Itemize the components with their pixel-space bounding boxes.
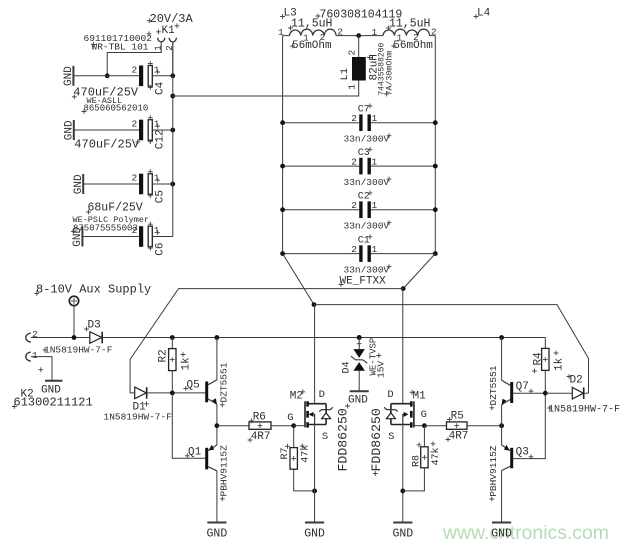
svg-text:GND: GND <box>41 385 61 397</box>
wire <box>152 75 173 77</box>
wire <box>358 371 360 391</box>
wire rail <box>172 42 174 237</box>
junction <box>291 423 296 428</box>
transistor Q7 <box>488 365 533 410</box>
diode D2 <box>567 374 584 399</box>
resistor R2 <box>158 349 193 371</box>
wire L1 pin2 <box>358 36 360 57</box>
svg-text:1: 1 <box>153 45 163 50</box>
svg-text:Q5: Q5 <box>187 379 200 391</box>
junction <box>170 182 175 187</box>
wire Q7 base <box>513 392 545 394</box>
svg-text:15V: 15V <box>375 361 386 378</box>
svg-text:4R7: 4R7 <box>449 430 469 442</box>
svg-text:DZT5551: DZT5551 <box>219 362 230 402</box>
junction <box>280 207 285 212</box>
junction <box>357 335 362 340</box>
wire Q1 emitter <box>216 426 218 445</box>
wire Q3 base <box>513 393 545 458</box>
svg-text:2: 2 <box>347 50 358 56</box>
inductor L1 <box>339 42 395 96</box>
svg-text:1: 1 <box>154 119 160 130</box>
svg-text:1: 1 <box>372 200 378 211</box>
svg-text:33n/300V: 33n/300V <box>344 134 390 145</box>
wire <box>171 371 173 393</box>
wire <box>73 75 139 77</box>
svg-text:1: 1 <box>371 27 377 38</box>
wire main rail <box>102 338 545 349</box>
wire <box>358 338 360 350</box>
ground <box>64 120 76 140</box>
resistor R6 <box>248 412 271 443</box>
wire <box>283 253 360 255</box>
capacitor C4 <box>72 61 167 99</box>
svg-text:68uF/25V: 68uF/25V <box>88 202 143 215</box>
ground <box>73 174 85 194</box>
svg-text:Q3: Q3 <box>516 447 529 459</box>
svg-text:GND: GND <box>304 527 325 540</box>
tvs diode D4 <box>341 338 386 378</box>
svg-text:GND: GND <box>392 527 413 540</box>
wire M2 source <box>314 425 316 523</box>
svg-text:2: 2 <box>351 200 357 211</box>
wire <box>371 253 435 255</box>
capacitor C5 <box>86 169 166 214</box>
wire diagonal <box>283 254 314 305</box>
svg-text:FDD86250: FDD86250 <box>336 408 351 471</box>
svg-text:2: 2 <box>351 244 357 255</box>
svg-text:1: 1 <box>32 350 38 361</box>
svg-text:1N5819HW-7-F: 1N5819HW-7-F <box>104 412 173 423</box>
inductor L3 <box>278 8 343 53</box>
wire <box>271 425 294 427</box>
wire <box>423 426 425 447</box>
svg-text:C5: C5 <box>155 190 167 203</box>
svg-text:1: 1 <box>347 84 358 90</box>
svg-text:1: 1 <box>372 157 378 168</box>
wire <box>424 425 446 427</box>
svg-text:1N5819HW-7-F: 1N5819HW-7-F <box>44 345 113 356</box>
power label 8-10V Aux Supply <box>34 283 151 297</box>
svg-text:33n/300V: 33n/300V <box>344 221 390 232</box>
resistor R8 <box>411 441 442 467</box>
wire <box>147 392 206 394</box>
svg-text:K1: K1 <box>162 25 176 37</box>
wire <box>152 236 173 238</box>
svg-text:M2: M2 <box>290 391 303 403</box>
svg-text:33n/300V: 33n/300V <box>344 177 390 188</box>
junction <box>357 335 362 340</box>
svg-text:C12: C12 <box>155 129 167 149</box>
svg-text:D2: D2 <box>570 375 583 387</box>
ground <box>72 226 84 246</box>
junction <box>401 286 406 291</box>
wire <box>283 35 290 37</box>
svg-text:D4: D4 <box>341 361 352 373</box>
wire <box>283 165 360 167</box>
wire <box>217 425 249 427</box>
wire Q1 collector <box>216 471 218 523</box>
svg-text:4R7: 4R7 <box>251 431 271 443</box>
svg-text:1: 1 <box>154 225 160 236</box>
power label 20V/3A <box>147 12 194 26</box>
svg-text:R8: R8 <box>411 455 422 467</box>
wire <box>82 236 139 238</box>
wire <box>371 122 435 124</box>
wire Q7 emitter <box>501 405 503 426</box>
svg-text:2: 2 <box>132 64 138 75</box>
svg-text:PBHV9115Z: PBHV9115Z <box>488 445 499 497</box>
wire Q3 emitter <box>501 426 503 445</box>
label 865060562010 <box>82 104 149 114</box>
wire M1 drain <box>402 289 404 404</box>
junction <box>105 73 110 78</box>
svg-text:1k: 1k <box>180 357 192 371</box>
wire <box>371 209 435 211</box>
svg-text:WE_FTXX: WE_FTXX <box>340 276 387 288</box>
wire to L1 <box>173 81 359 97</box>
junction <box>280 251 285 256</box>
junction <box>543 391 548 396</box>
wire bus B <box>314 305 589 394</box>
label 1N5819HW-7-F <box>43 345 113 356</box>
svg-text:R6: R6 <box>253 412 266 424</box>
svg-text:R4: R4 <box>532 352 544 366</box>
junction <box>433 207 438 212</box>
svg-text:GND: GND <box>348 395 368 407</box>
inductor L4 <box>371 8 490 53</box>
wire <box>74 129 139 131</box>
label 691101710002 <box>84 31 153 44</box>
wire M1 gate <box>414 425 425 427</box>
svg-text:L4: L4 <box>477 8 491 20</box>
svg-text:GND: GND <box>207 527 228 540</box>
wire <box>584 392 589 394</box>
wire Q7 collector <box>501 338 503 381</box>
transistor Q1 <box>185 445 230 501</box>
svg-text:1N5819HW-7-F: 1N5819HW-7-F <box>548 405 620 416</box>
ground <box>63 66 75 86</box>
svg-text:G: G <box>287 412 293 424</box>
resistor R5 <box>446 410 469 442</box>
capacitor C1 <box>344 234 392 275</box>
wire <box>83 183 139 185</box>
capacitor C3 <box>344 147 392 188</box>
svg-text:R7: R7 <box>280 447 291 459</box>
svg-text:www.cntronics.com: www.cntronics.com <box>442 522 609 544</box>
wire M2 drain <box>314 305 316 404</box>
junction <box>433 251 438 256</box>
junction <box>170 335 175 340</box>
ground <box>207 523 228 541</box>
wire <box>172 393 205 458</box>
wire <box>152 129 173 131</box>
wire M2 gate <box>294 425 305 427</box>
svg-text:R5: R5 <box>451 410 464 422</box>
label 875075555003 <box>71 224 138 234</box>
diode D1 <box>133 387 149 413</box>
label WE_FTXX <box>339 276 387 288</box>
svg-text:1: 1 <box>372 113 378 124</box>
svg-text:11,5uH: 11,5uH <box>389 18 430 31</box>
svg-text:M1: M1 <box>413 391 427 403</box>
junction <box>499 335 504 340</box>
wire <box>283 122 360 124</box>
wire K2 pin1 <box>31 357 52 381</box>
wire <box>171 338 173 349</box>
svg-text:S: S <box>322 431 328 443</box>
connector K2 <box>12 329 93 410</box>
svg-text:Q1: Q1 <box>188 447 202 459</box>
svg-text:875075555003: 875075555003 <box>73 224 138 234</box>
svg-text:FDD86250: FDD86250 <box>369 408 384 471</box>
junction <box>170 94 175 99</box>
wire diagonal <box>403 254 435 289</box>
svg-text:470uF/25V: 470uF/25V <box>74 137 140 151</box>
resistor R7 <box>280 444 311 470</box>
svg-text:56mOhm: 56mOhm <box>393 40 433 52</box>
svg-text:PBHV9115Z: PBHV9115Z <box>219 445 230 497</box>
wire rail left <box>282 36 284 254</box>
wire K1 pin1 <box>107 42 161 76</box>
junction <box>215 335 220 340</box>
wire <box>31 337 90 339</box>
svg-text:1: 1 <box>154 173 160 184</box>
wire <box>371 165 435 167</box>
capacitor C7 <box>344 104 392 145</box>
wire <box>403 468 425 491</box>
wire rail right <box>434 36 436 254</box>
wire <box>467 425 502 427</box>
svg-text:D: D <box>387 389 393 401</box>
svg-text:S: S <box>388 431 394 443</box>
capacitor C6 <box>132 222 167 256</box>
svg-text:56mOhm: 56mOhm <box>292 40 332 52</box>
svg-text:8-10V Aux Supply: 8-10V Aux Supply <box>36 283 151 297</box>
wire Q5 collector <box>216 338 218 380</box>
svg-text:C6: C6 <box>155 242 167 255</box>
junction <box>312 489 317 494</box>
junction <box>356 33 361 38</box>
svg-text:1: 1 <box>154 64 160 75</box>
capacitor C2 <box>344 191 392 232</box>
junction <box>400 489 405 494</box>
connector K1 <box>153 23 179 50</box>
svg-text:2: 2 <box>132 119 138 130</box>
svg-text:GND: GND <box>63 66 75 86</box>
junction <box>280 120 285 125</box>
svg-text:2: 2 <box>32 329 38 340</box>
svg-text:1k: 1k <box>553 357 565 371</box>
svg-text:L1: L1 <box>339 68 351 81</box>
junction <box>433 120 438 125</box>
svg-text:1: 1 <box>372 244 378 255</box>
ground <box>491 523 512 541</box>
svg-text:47k: 47k <box>299 445 311 463</box>
label 760308104119 <box>316 9 403 22</box>
label WR-TBL 101 <box>91 42 149 53</box>
svg-text:2: 2 <box>351 157 357 168</box>
ground <box>41 381 63 397</box>
mosfet M1 <box>369 389 427 476</box>
wire <box>545 392 572 394</box>
ground <box>348 391 369 406</box>
wire Q3 collector <box>501 471 503 523</box>
junction <box>422 423 427 428</box>
svg-text:D3: D3 <box>88 320 101 332</box>
junction <box>215 423 220 428</box>
svg-text:G: G <box>421 409 427 421</box>
svg-text:865060562010: 865060562010 <box>84 104 149 114</box>
svg-text:61300211121: 61300211121 <box>14 396 93 410</box>
wire M1 source <box>402 425 404 523</box>
svg-text:DZT5551: DZT5551 <box>488 365 499 405</box>
junction <box>312 302 317 307</box>
wire <box>73 306 75 338</box>
resistor R4 <box>532 348 565 373</box>
ground <box>392 523 413 541</box>
wire <box>544 370 546 393</box>
svg-text:7A/30mOhm: 7A/30mOhm <box>384 51 394 96</box>
wire <box>283 209 360 211</box>
svg-text:GND: GND <box>491 527 512 540</box>
junction <box>280 164 285 169</box>
wire <box>430 35 436 37</box>
junction <box>170 391 175 396</box>
capacitor C12 <box>74 115 166 151</box>
wire bus A <box>130 289 403 393</box>
svg-text:2: 2 <box>132 173 138 184</box>
junction <box>72 335 77 340</box>
wire <box>293 426 295 448</box>
svg-text:2: 2 <box>351 113 357 124</box>
svg-text:2: 2 <box>165 45 175 50</box>
power flag <box>69 296 78 305</box>
ground <box>304 523 325 541</box>
junction <box>170 73 175 78</box>
transistor Q3 <box>488 445 533 502</box>
svg-text:33n/300V: 33n/300V <box>344 264 390 275</box>
mosfet M2 <box>287 389 350 472</box>
svg-text:20V/3A: 20V/3A <box>150 12 194 26</box>
label 1N5819HW-7-F <box>547 405 620 416</box>
svg-text:Q7: Q7 <box>516 381 529 393</box>
junction <box>499 423 504 428</box>
wire <box>294 469 315 491</box>
junction <box>433 164 438 169</box>
diode D3 <box>84 320 102 344</box>
svg-text:47k: 47k <box>430 447 442 465</box>
junction <box>170 128 175 133</box>
wire K1 pin2 <box>172 42 174 76</box>
svg-text:C4: C4 <box>155 81 167 95</box>
wire <box>336 35 383 37</box>
svg-text:D: D <box>319 389 325 401</box>
wire Q5 emitter <box>216 404 218 426</box>
wire <box>152 183 173 185</box>
svg-text:WR-TBL 101: WR-TBL 101 <box>92 42 149 53</box>
svg-text:R2: R2 <box>158 349 170 362</box>
transistor Q5 <box>183 362 229 407</box>
